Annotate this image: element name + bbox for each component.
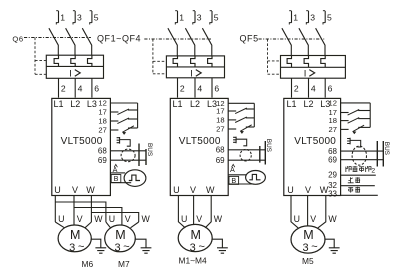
svg-text:U: U — [173, 185, 180, 195]
svg-text:L3: L3 — [87, 99, 97, 109]
breaker QF5 trip linkage stub lower — [268, 73, 281, 75]
breaker Q6 box divider — [46, 65, 103, 67]
svg-text:68: 68 — [98, 147, 107, 156]
VLT5000 U3 cable screen clamp symbol — [347, 138, 350, 145]
svg-text:M: M — [190, 228, 200, 242]
svg-text:W: W — [94, 214, 103, 224]
breaker QF1-QF4 pole L1 blade — [168, 28, 177, 56]
svg-text:5: 5 — [214, 12, 219, 22]
encoder U2 channel B box — [229, 176, 239, 184]
svg-text:W: W — [214, 214, 223, 224]
svg-text:L1: L1 — [286, 99, 296, 109]
motor M7 ground symbol — [141, 248, 152, 253]
wire M1~M4 phase V — [193, 196, 195, 225]
svg-text:QF5: QF5 — [240, 33, 259, 43]
svg-text:I: I — [190, 68, 193, 79]
breaker QF5 output wire 4 — [308, 78, 310, 97]
breaker Q6 trip linkage stub upper — [35, 60, 46, 62]
svg-text:M: M — [70, 228, 80, 242]
motor M6 — [58, 225, 106, 269]
encoder U2 pulse waveform symbol — [249, 174, 260, 179]
svg-text:U: U — [181, 214, 187, 224]
svg-text:27: 27 — [98, 126, 106, 135]
encoder U2 terminal 33 wire channel B — [228, 183, 252, 185]
svg-text:L1: L1 — [53, 99, 63, 109]
wire U1 branch V to M7 — [74, 208, 122, 223]
breaker QF5 trip linkage stub upper — [268, 60, 281, 62]
breaker Q6 pole L2 blade — [66, 28, 75, 55]
breaker Q6 thermal element pole 2 — [71, 55, 75, 66]
breaker Q6 output wire 6 — [91, 78, 93, 97]
breaker QF5 pole L3 supply wire 5 — [324, 11, 326, 23]
U3 terminal 29 function label mechanical brake — [345, 166, 375, 174]
svg-text:1: 1 — [179, 12, 184, 22]
wire U1 output U vertical — [54, 196, 56, 223]
wire M1~M4 phase W — [205, 196, 211, 228]
svg-text:~: ~ — [78, 241, 84, 253]
svg-text:BUS: BUS — [383, 142, 390, 155]
breaker QF5 pole L3 blade — [316, 28, 325, 55]
breaker QF1-QF4 box divider — [166, 66, 224, 68]
breaker QF1-QF4 trip linkage dash-dot line — [144, 38, 211, 40]
VLT5000 drive U3 with terminals — [284, 98, 390, 195]
svg-text:5: 5 — [94, 12, 99, 22]
svg-text:W: W — [206, 185, 215, 195]
svg-text:~: ~ — [123, 241, 129, 253]
VLT5000 drive U1 with terminals — [52, 98, 153, 195]
svg-text:4: 4 — [78, 83, 83, 93]
svg-text:3: 3 — [310, 12, 315, 22]
svg-text:U: U — [109, 214, 115, 224]
svg-text:L2: L2 — [70, 99, 80, 109]
breaker QF5 pole L2 supply wire 3 — [308, 11, 310, 23]
breaker Q6 output wire 4 — [74, 78, 76, 97]
svg-text:U: U — [58, 214, 64, 224]
svg-text:V: V — [190, 185, 196, 195]
wire branch to motor M7 — [55, 202, 138, 222]
wire U1 output W vertical — [90, 196, 92, 223]
svg-text:69: 69 — [216, 156, 225, 165]
breaker Q6 pole L2 supply wire 3 — [74, 11, 76, 23]
svg-text:A: A — [230, 165, 235, 174]
VLT5000 U2 terminal 69 wire — [228, 159, 266, 161]
encoder U1 direction arrow — [114, 164, 117, 167]
U3 terminal 33 function label down — [348, 187, 360, 193]
VLT5000 U2 screened cable oval — [240, 149, 251, 161]
svg-text:L1: L1 — [172, 99, 182, 109]
svg-text:U: U — [294, 214, 300, 224]
svg-text:I: I — [304, 68, 307, 79]
breaker QF1-QF4 thermal element pole 2 — [191, 56, 195, 67]
VLT5000 drive U2 enclosure — [170, 98, 228, 195]
VLT5000 U1 bus termination bar 2 — [145, 149, 147, 165]
breaker QF5 output wire 2 — [291, 78, 293, 97]
encoder U1 terminal 33 wire channel B — [110, 182, 131, 184]
svg-text:12: 12 — [329, 99, 337, 108]
svg-text:M6: M6 — [82, 259, 94, 269]
breaker QF5 trip linkage dash-dot line — [259, 38, 325, 40]
VLT5000 drive U2 with terminals — [170, 98, 272, 195]
circuit breaker QF1~QF4 — [97, 11, 225, 98]
VLT5000 drive U3 enclosure — [284, 98, 341, 195]
breaker QF1-QF4 output wire 6 — [211, 78, 213, 98]
svg-text:W: W — [86, 185, 95, 195]
wire U1 branch U to M7 — [55, 202, 106, 222]
VLT5000 U3 terminal 27 contact — [341, 128, 349, 130]
svg-text:27: 27 — [216, 125, 224, 134]
motor M6 ground symbol — [95, 248, 106, 253]
breaker QF1-QF4 pole L1 supply wire 1 — [177, 11, 179, 23]
svg-text:BUS: BUS — [265, 139, 272, 152]
VLT5000 U3 terminal 68 wire — [341, 150, 384, 152]
encoder feedback U1 — [110, 164, 145, 186]
breaker QF1-QF4 trip linkage stub lower — [153, 73, 167, 75]
VLT5000 U1 control bus vertical — [137, 103, 139, 128]
VLT5000 U2 terminal 12 wire to bus — [228, 102, 254, 104]
VLT5000 U3 terminal 18 contact — [341, 120, 349, 122]
circuit breaker QF5 — [240, 11, 346, 98]
VLT5000 U2 terminal 17 contact — [228, 110, 236, 112]
wire M7 phase W slant — [131, 222, 139, 228]
svg-text:4: 4 — [197, 83, 202, 93]
svg-text:L2: L2 — [303, 99, 313, 109]
VLT5000 U1 terminal 18 contact — [110, 120, 118, 122]
VLT5000 U2 terminal 68 wire — [228, 149, 266, 151]
svg-text:M: M — [303, 228, 313, 242]
wire M1~M4 phase U — [178, 196, 185, 228]
wire U1 branch W to M7 — [91, 213, 138, 223]
wire U1 output V vertical — [73, 196, 75, 226]
svg-text:69: 69 — [328, 156, 337, 165]
breaker QF1-QF4 pole L2 blade — [185, 28, 194, 56]
breaker QF5 pole L2 blade — [299, 28, 308, 55]
svg-text:6: 6 — [94, 83, 99, 93]
motor M5 protective earth wire — [324, 239, 334, 247]
wire M7 phase V slant — [121, 222, 123, 225]
svg-text:6: 6 — [328, 83, 333, 93]
VLT5000 U3 terminal 12 wire to bus — [341, 102, 371, 104]
wire M6 phase U slant — [55, 222, 64, 228]
wire M5 phase U — [291, 196, 298, 228]
breaker QF5 box divider — [281, 66, 346, 68]
svg-text:2: 2 — [61, 83, 66, 93]
wire M6 phase V slant — [73, 224, 75, 226]
breaker QF1-QF4 thermal element pole 3 — [208, 56, 212, 67]
VLT5000 U2 terminal 18 contact — [228, 119, 236, 121]
svg-text:~: ~ — [198, 241, 204, 253]
breaker QF1-QF4 pole L3 supply wire 5 — [211, 11, 213, 23]
VLT5000 U3 terminal 33 — [328, 189, 378, 198]
wire M7 phase U slant — [106, 222, 111, 228]
breaker QF1-QF4 output wire 4 — [194, 78, 196, 98]
svg-text:18: 18 — [216, 116, 224, 125]
VLT5000 U3 control bus vertical — [369, 103, 371, 128]
breaker Q6 thermal element pole 3 — [88, 55, 92, 66]
VLT5000 U1 screened cable oval — [121, 149, 135, 162]
breaker QF5 thermal element pole 1 — [287, 56, 291, 68]
breaker QF1-QF4 pole L3 blade — [202, 28, 211, 56]
svg-text:2: 2 — [294, 83, 299, 93]
VLT5000 U1 terminal 12 wire to bus — [110, 102, 137, 104]
svg-text:29: 29 — [328, 170, 337, 179]
motor M6 circle — [58, 225, 91, 252]
motor M5 — [291, 226, 340, 266]
breaker QF5 pole L1 supply wire 1 — [291, 11, 293, 23]
svg-text:V: V — [310, 214, 316, 224]
svg-text:12: 12 — [98, 99, 106, 108]
svg-text:6: 6 — [214, 83, 219, 93]
encoder feedback U2 — [228, 164, 265, 185]
svg-text:M5: M5 — [302, 256, 314, 266]
VLT5000 U3 screened cable oval — [352, 146, 366, 165]
svg-text:33: 33 — [328, 189, 337, 198]
svg-text:VLT5000: VLT5000 — [61, 136, 103, 147]
VLT5000 U1 terminal 17 contact — [110, 111, 118, 113]
motor M7 circle — [105, 225, 136, 252]
breaker QF1-QF4 thermal unit box — [166, 56, 224, 78]
VLT5000 U1 bus termination bar 1 — [138, 144, 140, 167]
VLT5000 drive U1 enclosure — [52, 98, 111, 195]
breaker Q6 pole L3 supply wire 5 — [91, 11, 93, 23]
wire M6 phase W slant — [85, 222, 91, 228]
svg-text:3: 3 — [114, 242, 120, 254]
svg-text:QF1~QF4: QF1~QF4 — [97, 33, 141, 43]
VLT5000 U1 terminal 69 wire — [110, 159, 146, 161]
VLT5000 U2 cable screen clamp symbol — [233, 137, 236, 144]
svg-text:17: 17 — [216, 107, 224, 116]
motor M1~M4 feeder wires — [178, 196, 222, 228]
VLT5000 U3 bus termination bar 2 — [382, 141, 384, 167]
svg-text:Q6: Q6 — [12, 34, 23, 43]
motor M1~M4 ground symbol — [217, 248, 228, 253]
svg-text:V: V — [77, 214, 83, 224]
breaker Q6 output wire 2 — [58, 78, 60, 97]
motor M1~M4 — [178, 224, 228, 265]
encoder U1 pulse waveform symbol — [129, 175, 140, 180]
svg-text:B: B — [114, 174, 119, 183]
breaker QF5 trip linkage vertical dashed — [267, 39, 269, 74]
motor M6 protective earth wire — [91, 239, 101, 247]
svg-text:VLT5000: VLT5000 — [179, 136, 221, 147]
encoder U2 pulse transducer circle — [246, 171, 266, 185]
motor M7 — [105, 225, 152, 269]
breaker Q6 trip linkage stub lower — [35, 73, 46, 75]
svg-text:V: V — [72, 185, 78, 195]
U3 terminal 32 function label up — [348, 177, 360, 183]
svg-text:~: ~ — [311, 241, 317, 253]
breaker QF1-QF4 thermal element pole 1 — [173, 56, 177, 67]
encoder U2 terminal 32 wire channel A — [228, 174, 246, 176]
svg-text:1: 1 — [60, 12, 65, 22]
svg-text:VLT5000: VLT5000 — [294, 136, 336, 147]
motor M1~M4 protective earth wire — [212, 239, 223, 247]
svg-text:M: M — [115, 228, 125, 242]
VLT5000 U2 terminal 27 contact — [228, 128, 236, 130]
VLT5000 U2 bus termination bar 2 — [264, 141, 266, 165]
svg-text:W: W — [142, 214, 151, 224]
encoder U1 channel B box — [111, 175, 121, 183]
encoder U2 direction arrow — [232, 164, 235, 167]
encoder U1 terminal 32 wire channel A — [110, 172, 125, 174]
svg-text:BUS: BUS — [146, 143, 153, 156]
svg-text:M7: M7 — [118, 259, 130, 269]
svg-text:18: 18 — [329, 116, 337, 125]
breaker QF5 thermal element pole 3 — [321, 56, 325, 68]
breaker QF1-QF4 pole L2 supply wire 3 — [194, 11, 196, 23]
breaker QF5 output wire 6 — [324, 78, 326, 97]
VLT5000 U1 terminal 27 contact — [110, 129, 118, 131]
svg-text:3: 3 — [197, 12, 202, 22]
svg-text:U: U — [54, 185, 61, 195]
motor M7 feeder wires — [106, 214, 151, 228]
svg-text:M1~M4: M1~M4 — [179, 256, 208, 266]
svg-text:U: U — [287, 185, 294, 195]
svg-text:V: V — [305, 185, 311, 195]
motor M1~M4 circle — [178, 224, 212, 251]
breaker Q6 thermal unit box — [46, 55, 103, 78]
svg-text:3: 3 — [69, 242, 75, 254]
svg-text:17: 17 — [98, 108, 106, 117]
VLT5000 U3 bus termination bar 1 — [376, 141, 378, 167]
VLT5000 U3 terminal 17 contact — [341, 112, 349, 114]
VLT5000 U3 terminal 32 — [328, 181, 375, 190]
svg-text:68: 68 — [216, 146, 225, 155]
svg-text:4: 4 — [311, 83, 316, 93]
svg-text:V: V — [196, 214, 202, 224]
breaker Q6 trip linkage vertical dashed — [34, 38, 36, 75]
VLT5000 U2 bus termination bar 1 — [259, 146, 261, 163]
breaker QF1-QF4 output wire 2 — [177, 78, 179, 98]
VLT5000 U3 terminal 29 — [328, 170, 376, 179]
svg-text:V: V — [125, 214, 131, 224]
breaker Q6 pole L1 supply wire 1 — [58, 11, 60, 23]
svg-text:1: 1 — [293, 12, 298, 22]
breaker Q6 trip linkage dash-dot line — [24, 37, 91, 39]
svg-text:3: 3 — [190, 242, 196, 254]
svg-text:27: 27 — [329, 125, 337, 134]
motor M5 circle — [291, 226, 325, 253]
svg-text:69: 69 — [98, 156, 107, 165]
svg-text:W: W — [328, 214, 337, 224]
encoder U1 pulse transducer circle — [124, 170, 146, 187]
wire VLT U1 output drops — [55, 196, 91, 226]
VLT5000 U3 terminal 69 wire — [341, 159, 384, 161]
breaker QF1-QF4 trip linkage vertical dashed — [152, 39, 154, 74]
wire M5 phase W — [318, 196, 326, 228]
motor M5 feeder wires — [291, 196, 337, 228]
svg-text:L2: L2 — [190, 99, 200, 109]
breaker QF5 thermal element pole 2 — [304, 56, 308, 68]
motor M5 ground symbol — [329, 248, 340, 253]
breaker QF5 pole L1 blade — [282, 28, 291, 55]
svg-text:3: 3 — [302, 242, 308, 254]
breaker QF5 thermal unit box — [281, 56, 346, 79]
svg-text:2: 2 — [180, 83, 185, 93]
VLT5000 U1 cable screen clamp symbol — [117, 137, 120, 144]
breaker QF1-QF4 trip linkage stub upper — [153, 60, 167, 62]
wire M5 phase V — [307, 196, 309, 227]
breaker Q6 pole L3 blade — [82, 28, 91, 55]
svg-text:18: 18 — [98, 117, 106, 126]
motor M7 protective earth wire — [135, 239, 146, 247]
svg-text:3: 3 — [77, 12, 82, 22]
VLT5000 U1 terminal 68 wire — [110, 150, 146, 152]
svg-text:I: I — [69, 68, 72, 79]
motor M6 feeder wires — [55, 214, 103, 228]
circuit breaker Q6 — [12, 11, 103, 98]
VLT5000 U2 control bus vertical — [253, 103, 255, 127]
breaker Q6 thermal element pole 1 — [54, 55, 58, 66]
breaker Q6 pole L1 blade — [49, 28, 58, 55]
svg-text:5: 5 — [327, 12, 332, 22]
svg-text:2: 2 — [371, 167, 375, 174]
